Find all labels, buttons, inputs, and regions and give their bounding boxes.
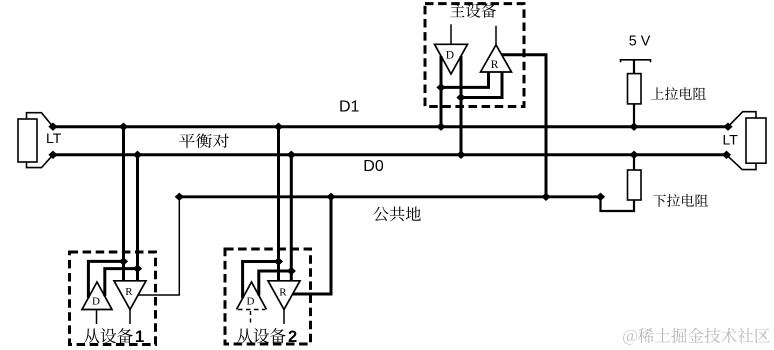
node: slave1 tap junction on D0 [133, 151, 142, 159]
wire: pull-down resistor to ground bus [601, 197, 635, 211]
node: slave2 tap junction on D1 [274, 123, 283, 131]
wire: slave1 receiver stub [129, 310, 131, 325]
node: ground bus right end junction [596, 193, 605, 201]
label: slave1 receiver R [125, 286, 133, 298]
svg-text:R: R [279, 287, 287, 299]
wire: balanced-pair bus line D1 [53, 125, 728, 128]
label: slave2 receiver R [279, 287, 287, 299]
node: slave1 internal junction B [133, 264, 142, 272]
wire: slave1 tap D1 to receiver [122, 127, 125, 281]
node: master tap junction on D1 [436, 123, 445, 131]
slave device 1 box (从设备 1) [70, 252, 156, 345]
node: slave2 ground junction [326, 193, 335, 201]
node: slave2 internal junction B [287, 267, 296, 275]
wire: master driver tap to D1 [440, 56, 443, 127]
receiver U-R (slave 1, triangle down) [114, 281, 146, 310]
label: slave 2 number [288, 328, 297, 346]
label: master receiver R [491, 59, 499, 71]
wire: master driver input stub [450, 24, 452, 44]
power rail 5V bar [621, 60, 651, 63]
driver U-D (master, triangle down) [435, 44, 468, 74]
wire: slave2 receiver stub [283, 310, 285, 325]
svg-text:R: R [491, 59, 499, 71]
node: master ground junction [541, 193, 550, 201]
label: right LT [723, 132, 739, 148]
svg-text:D0: D0 [363, 158, 384, 175]
wire: pull-up resistor to D1 [633, 104, 635, 127]
label: slave1 driver D [92, 296, 100, 308]
svg-text:D: D [446, 50, 454, 62]
wire: slave2 ground link [293, 197, 331, 294]
svg-text:2: 2 [288, 328, 297, 346]
wire: master driver tap to D0 [460, 56, 463, 155]
svg-text:D1: D1 [339, 99, 360, 116]
wire: slave2 branch to driver left edge [243, 262, 279, 299]
resistor R-pullup (上拉电阻) [628, 74, 642, 104]
wire: master receiver input stub [495, 26, 497, 45]
watermark: @稀土掘金技术社区 [623, 328, 770, 345]
node: slave1 ground junction (ground bus left end) [175, 193, 184, 201]
node: D1 left end junction [48, 123, 57, 131]
node: slave2 tap junction on D0 [287, 151, 296, 159]
wire: slave1 ground link [138, 197, 179, 295]
label: 主设备 (master device) [450, 3, 496, 17]
label: slave2 driver D [247, 296, 255, 308]
svg-text:R: R [125, 286, 133, 298]
master device box (主设备) [425, 4, 524, 107]
wire: D0 to pull-down resistor [633, 155, 635, 170]
svg-text:LT: LT [46, 130, 62, 146]
wire: slave2 driver stub (dashed) [250, 311, 252, 324]
node: master tap junction on D0 [456, 151, 465, 159]
resistor LT (right termination) [746, 118, 766, 163]
wire: master ground link [502, 55, 546, 197]
label: 从设备 (slave 1) [84, 328, 133, 343]
label: 5 V supply [629, 34, 651, 50]
node: master internal junction B [456, 93, 465, 101]
wire: common ground bus (公共地) [179, 195, 600, 198]
label: 公共地 (common ground) [373, 206, 421, 221]
node: pull-down junction on D0 [629, 151, 638, 159]
label: 平衡对 (balanced pair) [179, 134, 229, 148]
label: left LT [46, 130, 62, 146]
svg-text:D: D [92, 296, 100, 308]
driver U-D (slave 1, triangle up) [82, 282, 112, 310]
wire: master branch to receiver input 2 [461, 72, 502, 98]
wire: slave2 tap D0 to receiver [290, 155, 293, 281]
label: 上拉电阻 (pull-up resistor) [651, 87, 706, 100]
wire: 5V bar to pull-up resistor [633, 60, 635, 74]
receiver U-R (master, triangle up) [481, 45, 512, 72]
node: slave1 internal junction A [119, 257, 128, 265]
svg-text:LT: LT [723, 132, 739, 148]
wire: balanced-pair bus line D0 [53, 153, 727, 156]
receiver U-R (slave 2, triangle down) [268, 281, 300, 310]
svg-text:D: D [247, 296, 255, 308]
resistor R-pulldown (下拉电阻) [628, 170, 642, 200]
wire: right LT bottom lead to D0 [727, 155, 757, 170]
slave device 2 box (从设备 2) [225, 249, 311, 344]
svg-text:5 V: 5 V [629, 34, 651, 50]
node: D1 right end junction [723, 123, 732, 131]
resistor LT (left termination) [18, 119, 37, 162]
wire: slave1 branch to driver left edge [88, 261, 123, 297]
driver U-D (slave 2, triangle up) [237, 282, 267, 310]
label: slave 1 number [135, 328, 144, 346]
wire: master branch to receiver input 1 [441, 72, 489, 87]
wire: left LT top lead to D1 [27, 113, 54, 127]
wire: slave1 tap D0 to receiver [136, 155, 139, 281]
label: master driver D [446, 50, 454, 62]
wire: slave1 branch to driver right edge [105, 269, 138, 297]
node: pull-up junction on D1 [629, 123, 638, 131]
svg-text:1: 1 [135, 328, 144, 346]
node: D0 right end junction [722, 151, 731, 159]
label: bus D1 [339, 99, 360, 116]
wire: slave1 driver stub [96, 310, 98, 325]
node: D0 left end junction [48, 151, 57, 159]
node: master internal junction A [436, 83, 445, 91]
node: slave2 internal junction A [274, 257, 283, 265]
wire: left LT bottom lead to D0 [27, 155, 54, 168]
wire: slave2 tap D1 to receiver [277, 127, 280, 281]
label: bus D0 [363, 158, 384, 175]
node: slave1 tap junction on D1 [119, 123, 128, 131]
wire: slave2 branch to driver right edge [259, 271, 292, 295]
label: 从设备 (slave 2) [237, 328, 286, 343]
wire: right LT top lead to D1 [728, 112, 756, 127]
label: 下拉电阻 (pull-down resistor) [653, 194, 708, 207]
